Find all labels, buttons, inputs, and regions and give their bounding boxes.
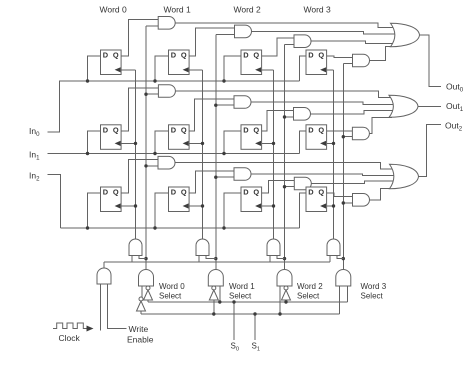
- AND gate read Word 0 bit 2: [158, 156, 175, 169]
- svg-text:Word 1: Word 1: [229, 282, 255, 291]
- wire D input tap Word 1 bit 2: [155, 193, 169, 228]
- wire Q output Word 2 bit 2: [262, 180, 295, 193]
- flip-flop D Word 0 bit 2: [101, 187, 122, 212]
- wire read AND output Word 2 bit 0 to OR: [311, 41, 396, 44]
- AND gate read Word 1 bit 2: [234, 168, 251, 181]
- wire read AND output Word 3 bit 2 to OR: [370, 189, 394, 200]
- wire D input tap Word 1 bit 0: [155, 56, 169, 81]
- clock arrowhead Word 1 bit 2: [183, 203, 189, 208]
- svg-text:D: D: [308, 51, 314, 60]
- AND gate word select decoder Word 0: [139, 270, 154, 287]
- AND gate word select decoder Word 1: [208, 270, 223, 287]
- wire Q output Word 0 bit 2: [121, 160, 158, 194]
- clock arrowhead Word 1 bit 1: [183, 141, 189, 146]
- svg-text:Word 3: Word 3: [361, 282, 387, 291]
- wire read AND output Word 3 bit 1 to OR: [369, 118, 392, 134]
- AND gate word select decoder Word 3: [336, 270, 351, 287]
- inverter word0 S0: [146, 286, 150, 290]
- wire write AND inputs Word 3: [329, 256, 331, 263]
- svg-text:D: D: [103, 126, 109, 135]
- AND gate read Word 3 bit 0: [353, 54, 370, 67]
- svg-text:Q: Q: [253, 188, 259, 197]
- wire D input tap Word 3 bit 2: [300, 193, 307, 228]
- wire Out1 output: [415, 105, 441, 107]
- wire read AND output Word 1 bit 0 to OR: [252, 31, 397, 34]
- clock arrowhead Word 0 bit 1: [115, 141, 121, 146]
- svg-text:Out2: Out2: [445, 121, 463, 133]
- wire read AND output Word 2 bit 2 to OR: [311, 181, 396, 184]
- AND gate word select decoder Word 2: [277, 270, 292, 287]
- svg-text:Q: Q: [318, 51, 324, 60]
- clock arrowhead Word 0 bit 0: [115, 67, 121, 72]
- AND gate write Word 1: [196, 239, 209, 255]
- wire read AND output Word 1 bit 1 to OR: [251, 102, 394, 105]
- wire write AND inputs Word 1: [198, 256, 200, 263]
- wire Q output Word 0 bit 1: [121, 88, 158, 131]
- flip-flop D Word 0 bit 1: [101, 125, 122, 150]
- clock arrowhead Word 1 bit 0: [183, 67, 189, 72]
- svg-text:S0: S0: [231, 342, 240, 353]
- svg-text:Word 3: Word 3: [304, 5, 332, 15]
- svg-text:S1: S1: [252, 342, 261, 353]
- clock arrowhead Word 3 bit 1: [320, 141, 326, 146]
- wire clock line column Word 3: [333, 70, 335, 239]
- svg-text:D: D: [243, 188, 249, 197]
- wire D input tap Word 2 bit 2: [224, 193, 241, 228]
- AND gate write Word 2: [267, 239, 280, 255]
- AND gate read Word 1 bit 0: [235, 25, 252, 38]
- wire Q output Word 1 bit 2: [189, 171, 234, 193]
- wire Q output Word 0 bit 0: [121, 20, 158, 56]
- wire word select line Word 1: [215, 35, 217, 270]
- svg-text:Select: Select: [361, 292, 384, 301]
- wire word1 decoder inputs: [219, 286, 221, 302]
- wire Out0 output: [420, 35, 442, 87]
- wire D input tap Word 2 bit 0: [224, 56, 241, 81]
- wire D input tap Word 0 bit 2: [88, 193, 101, 228]
- wire select bus S0: [148, 301, 347, 303]
- svg-text:Q: Q: [113, 188, 119, 197]
- wire D input tap Word 2 bit 1: [224, 131, 241, 154]
- wire Q output Word 3 bit 2: [327, 193, 353, 197]
- wire D input tap Word 1 bit 1: [155, 131, 169, 154]
- wire read AND output Word 3 bit 0 to OR: [370, 47, 394, 61]
- wire S0 riser: [233, 302, 235, 340]
- svg-text:Enable: Enable: [127, 335, 154, 345]
- wire read AND output Word 2 bit 1 to OR: [311, 111, 395, 114]
- clock waveform symbol: [53, 323, 88, 329]
- inverter word0 S1: [139, 297, 143, 301]
- AND gate read Word 2 bit 2: [294, 177, 311, 190]
- wire Q output Word 3 bit 0: [327, 56, 353, 57]
- wire word3 decoder inputs: [338, 286, 340, 314]
- wire clock input: [100, 284, 102, 331]
- svg-text:In1: In1: [29, 150, 40, 162]
- inverter word2 S0: [284, 286, 288, 290]
- wire Q output Word 1 bit 0: [189, 28, 234, 56]
- svg-text:D: D: [103, 51, 109, 60]
- clock arrowhead Word 2 bit 1: [255, 141, 261, 146]
- wire In0 distribution line row 0: [59, 80, 300, 82]
- OR gate output bit 1: [389, 95, 418, 117]
- svg-text:Q: Q: [318, 126, 324, 135]
- wire word select line Word 3: [342, 64, 344, 270]
- flip-flop D Word 2 bit 0: [241, 50, 262, 75]
- wire Q output Word 3 bit 1: [327, 130, 353, 132]
- wire Q output Word 1 bit 1: [189, 99, 234, 131]
- svg-text:Q: Q: [113, 126, 119, 135]
- flip-flop D Word 1 bit 0: [169, 50, 190, 75]
- svg-text:Q: Q: [253, 126, 259, 135]
- OR gate output bit 2: [390, 164, 419, 189]
- wire D input tap Word 0 bit 1: [88, 131, 101, 154]
- AND gate read Word 2 bit 1: [294, 108, 311, 121]
- wire clock-WE AND output line: [103, 262, 105, 268]
- flip-flop D Word 2 bit 1: [241, 125, 262, 150]
- svg-text:Word 1: Word 1: [164, 5, 192, 15]
- wire write AND inputs Word 0: [131, 256, 133, 263]
- clock arrowhead Word 3 bit 2: [320, 203, 326, 208]
- clock arrowhead Word 2 bit 0: [255, 67, 261, 72]
- wire read AND output Word 0 bit 0 to OR: [175, 23, 395, 28]
- AND gate read Word 3 bit 1: [352, 127, 369, 140]
- AND gate read Word 0 bit 0: [158, 17, 175, 30]
- svg-text:D: D: [171, 126, 177, 135]
- wire word2 decoder inputs: [279, 286, 281, 314]
- clock arrowhead Word 0 bit 2: [115, 203, 121, 208]
- clock input arrowhead: [87, 326, 94, 332]
- node In2 input lead: [48, 175, 61, 229]
- flip-flop D Word 1 bit 2: [169, 187, 190, 212]
- wire clock line column Word 1: [202, 70, 204, 239]
- AND gate write Word 0: [129, 239, 142, 255]
- svg-text:D: D: [103, 188, 109, 197]
- svg-text:D: D: [243, 51, 249, 60]
- clock arrowhead Word 2 bit 2: [255, 203, 261, 208]
- svg-text:Select: Select: [159, 292, 182, 301]
- wire S1 riser: [254, 314, 256, 340]
- svg-text:Out0: Out0: [446, 82, 464, 94]
- wire Q output Word 2 bit 0: [262, 38, 294, 56]
- wire select bus S1: [141, 313, 339, 315]
- AND gate write Word 3: [327, 239, 340, 255]
- wire D input tap Word 3 bit 1: [300, 131, 307, 154]
- AND gate read Word 1 bit 1: [234, 96, 251, 109]
- AND gate read Word 3 bit 2: [353, 194, 370, 207]
- OR gate output bit 0: [391, 23, 420, 47]
- svg-text:In2: In2: [29, 171, 40, 183]
- svg-text:Word 2: Word 2: [234, 5, 262, 15]
- inverter word1 S1: [212, 286, 216, 290]
- node In0 input lead: [48, 81, 60, 132]
- flip-flop D Word 0 bit 0: [101, 50, 122, 75]
- svg-text:Word 2: Word 2: [297, 282, 323, 291]
- svg-text:Word 0: Word 0: [159, 282, 185, 291]
- svg-text:Q: Q: [318, 188, 324, 197]
- svg-text:D: D: [171, 51, 177, 60]
- svg-text:Q: Q: [181, 188, 187, 197]
- svg-text:Q: Q: [113, 51, 119, 60]
- flip-flop D Word 3 bit 0: [306, 50, 327, 75]
- wire read AND output Word 0 bit 2 to OR: [175, 163, 395, 169]
- svg-text:Q: Q: [181, 51, 187, 60]
- svg-text:Q: Q: [181, 126, 187, 135]
- wire D input tap Word 0 bit 0: [88, 56, 101, 81]
- wire clock line column Word 0: [135, 70, 137, 239]
- svg-text:Clock: Clock: [59, 333, 81, 343]
- wire D input tap Word 3 bit 0: [300, 56, 307, 81]
- svg-text:D: D: [308, 126, 314, 135]
- wire word0 decoder inputs: [141, 286, 143, 297]
- wire read AND output Word 1 bit 2 to OR: [251, 174, 396, 176]
- svg-text:Word 0: Word 0: [100, 5, 128, 15]
- svg-text:D: D: [171, 188, 177, 197]
- node In1 input lead: [48, 153, 300, 155]
- svg-text:Select: Select: [229, 292, 252, 301]
- flip-flop D Word 2 bit 2: [241, 187, 262, 212]
- clock arrowhead Word 3 bit 0: [320, 67, 326, 72]
- svg-text:Out1: Out1: [446, 101, 464, 113]
- AND gate read Word 2 bit 0: [294, 35, 311, 48]
- wire Out2 output: [418, 125, 441, 177]
- wire Q output Word 2 bit 1: [262, 111, 294, 131]
- wire write AND inputs Word 2: [269, 256, 271, 263]
- svg-text:In0: In0: [29, 126, 40, 138]
- svg-text:D: D: [308, 188, 314, 197]
- wire clock line column Word 2: [273, 70, 275, 239]
- flip-flop D Word 3 bit 2: [306, 187, 327, 212]
- svg-text:Q: Q: [253, 51, 259, 60]
- wire word select line Word 0: [145, 26, 147, 270]
- svg-text:Select: Select: [297, 292, 320, 301]
- flip-flop D Word 3 bit 1: [306, 125, 327, 150]
- svg-text:Write: Write: [129, 324, 149, 334]
- svg-text:D: D: [243, 126, 249, 135]
- flip-flop D Word 1 bit 1: [169, 125, 190, 150]
- AND gate clock-write enable: [97, 268, 111, 284]
- AND gate read Word 0 bit 1: [158, 85, 175, 98]
- wire write enable input: [108, 284, 127, 329]
- wire In2 distribution line row 2: [61, 227, 300, 229]
- wire read AND output Word 0 bit 1 to OR: [175, 91, 394, 97]
- wire word select line Word 2: [284, 44, 286, 269]
